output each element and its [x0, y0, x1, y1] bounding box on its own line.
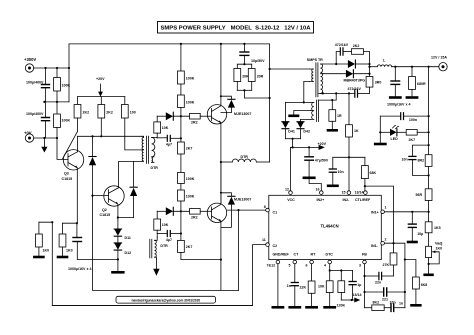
capacitor 1u dtc	[349, 271, 361, 301]
svg-text:15: 15	[342, 190, 346, 194]
wire MJE2 emitter down	[220, 222, 222, 291]
svg-text:4: 4	[324, 264, 326, 268]
svg-text:Q2: Q2	[102, 208, 107, 212]
resistor 2K2 a	[74, 97, 89, 132]
title box	[158, 22, 314, 34]
pin 4 DTC	[324, 260, 332, 267]
wire +20V rail aux	[292, 139, 294, 148]
svg-text:13/14: 13/14	[355, 190, 364, 194]
capacitor C1 100u/400V	[26, 68, 50, 102]
trimmer Vadj 1K0	[425, 242, 443, 275]
svg-text:10n: 10n	[402, 157, 408, 161]
capacitor 1n CT	[287, 264, 300, 308]
svg-text:1K0: 1K0	[66, 249, 73, 253]
capacitor 100n led blk	[380, 113, 428, 122]
svg-text:100K: 100K	[62, 119, 71, 123]
svg-text:2K7: 2K7	[186, 147, 193, 151]
svg-text:DTR: DTR	[151, 166, 159, 170]
inductor DTR horizontal	[232, 155, 269, 162]
wire C1	[228, 209, 266, 211]
resistor 10K upper	[154, 116, 169, 138]
capacitor 22n comp	[365, 272, 394, 284]
svg-text:7&12: 7&12	[267, 264, 276, 268]
wire Q2 base net down to bottom	[93, 196, 239, 291]
wire 20R return to bridge	[244, 90, 269, 98]
diode D11	[114, 229, 131, 243]
resistor 100K lower1	[178, 173, 195, 191]
svg-text:10µ/50V: 10µ/50V	[251, 59, 265, 63]
svg-text:GND/REF: GND/REF	[273, 252, 290, 256]
svg-text:DTR: DTR	[241, 155, 249, 159]
svg-text:1n: 1n	[287, 284, 291, 288]
svg-text:1n: 1n	[399, 302, 403, 306]
resistor 20R b	[248, 64, 263, 90]
wire cap bottom to D12 gnd	[77, 258, 118, 260]
wire +300V rail	[34, 67, 69, 69]
ground bar aux	[290, 115, 298, 118]
wire sec aux 1R net	[318, 93, 336, 100]
diode D41	[282, 122, 295, 139]
svg-text:1000µ/16V x 4: 1000µ/16V x 4	[387, 102, 410, 106]
pin 1 IN1+	[381, 206, 387, 214]
capacitor 221 comp	[365, 288, 405, 302]
wire +20V rail upper	[78, 96, 125, 98]
svg-text:+0V: +0V	[24, 131, 32, 136]
svg-text:IN2-: IN2-	[343, 198, 351, 202]
svg-text:13/14: 13/14	[353, 293, 362, 297]
ground bar D12	[113, 271, 124, 274]
wire IN1+ net	[385, 211, 429, 213]
wire aux top tap	[285, 102, 310, 121]
svg-text:16: 16	[316, 188, 320, 192]
pin 11 C2	[262, 238, 269, 246]
svg-text:20R: 20R	[257, 75, 264, 79]
snubber resistor 2K2	[352, 44, 370, 60]
resistor 27K comp	[383, 243, 397, 276]
diode at MJE2	[220, 192, 235, 228]
svg-text:D42: D42	[303, 129, 310, 133]
svg-text:8K2: 8K2	[373, 301, 380, 305]
node dots drive upper	[180, 43, 182, 140]
svg-text:472/1kV: 472/1kV	[335, 43, 349, 47]
svg-text:1K0: 1K0	[436, 247, 443, 251]
svg-text:2K2: 2K2	[353, 44, 360, 48]
LED	[380, 125, 406, 141]
svg-text:100: 100	[130, 111, 136, 115]
svg-text:C1815: C1815	[62, 177, 73, 181]
wire bus vertical x69	[68, 44, 70, 102]
terminal 12V/15A	[431, 56, 447, 71]
resistor 10K lower	[154, 211, 169, 237]
svg-text:RT: RT	[311, 252, 317, 256]
svg-text:100µ/400V: 100µ/400V	[26, 112, 44, 116]
wire C2 route	[253, 245, 266, 306]
snubber cap 472/1kV	[335, 43, 352, 65]
wire Q3 emitter down	[76, 168, 78, 223]
svg-text:10K: 10K	[162, 126, 169, 130]
wire top rail corner down to node A	[269, 44, 271, 162]
pin 16 IN2+	[316, 188, 324, 195]
resistor 2K2 b	[98, 97, 113, 137]
svg-text:22K: 22K	[300, 286, 307, 290]
svg-text:8R2: 8R2	[418, 159, 425, 163]
pin 7/12 GND	[267, 260, 280, 267]
svg-text:D41: D41	[288, 129, 295, 133]
pin 12 VCC	[285, 188, 292, 195]
resistor 1K sense	[346, 92, 359, 190]
wire to primary top	[270, 68, 310, 70]
diode at Q3	[89, 136, 96, 195]
svg-text:3R0: 3R0	[375, 81, 382, 85]
capacitor 10n row	[390, 301, 405, 312]
wire top rail	[69, 43, 270, 45]
svg-text:IN2+: IN2+	[317, 198, 325, 202]
svg-text:2R2: 2R2	[191, 120, 198, 124]
transistor MJE13007 upper	[207, 105, 251, 124]
svg-text:2K2: 2K2	[83, 111, 90, 115]
resistor 100K lower2	[178, 190, 195, 240]
svg-text:2K7: 2K7	[186, 245, 193, 249]
email label box	[116, 296, 216, 303]
svg-text:10µ: 10µ	[417, 232, 423, 236]
wire led blk left gnd	[375, 116, 385, 144]
chassis ground arrow	[41, 138, 47, 153]
resistor 20R a	[234, 64, 252, 90]
svg-text:VCC: VCC	[287, 198, 295, 202]
wire MJE2 collector up	[220, 162, 222, 204]
resistor 1R	[328, 99, 342, 130]
transformer DTR upper	[142, 136, 158, 170]
diode rect 2	[323, 70, 370, 83]
diode drive lower	[157, 207, 189, 215]
terminal +300V	[24, 57, 36, 72]
wire Q3 collector net	[78, 135, 142, 137]
wire C1 branch down	[238, 210, 240, 290]
capacitor 10n ref	[328, 157, 344, 186]
svg-text:C1815: C1815	[100, 213, 111, 217]
svg-text:CT: CT	[294, 252, 300, 256]
svg-text:47µ/50V: 47µ/50V	[315, 159, 329, 163]
wire Q3 collector up	[77, 136, 79, 151]
svg-text:1K0: 1K0	[43, 249, 50, 253]
wire IN2+ to gnd	[309, 179, 321, 190]
wire node A to DTR-h	[221, 161, 232, 163]
snubber2 cap 472/16V	[318, 87, 369, 97]
pin 8 C1	[264, 205, 270, 212]
resistor 680R	[407, 67, 426, 98]
inductor L	[370, 58, 439, 66]
svg-text:2K2: 2K2	[106, 111, 113, 115]
svg-text:4µ7: 4µ7	[166, 143, 172, 147]
wire long left vertical to bottom	[52, 222, 252, 305]
svg-text:10K: 10K	[162, 223, 169, 227]
wire mid bus rail	[44, 101, 69, 103]
resistor 1K5	[425, 212, 440, 247]
svg-text:1µ: 1µ	[357, 283, 361, 287]
svg-text:4µ7: 4µ7	[166, 238, 172, 242]
transformer AUX winding	[311, 100, 319, 122]
svg-text:2: 2	[385, 238, 387, 242]
pin 6 RT	[306, 260, 314, 267]
svg-text:MJE13007: MJE13007	[234, 112, 251, 116]
wire 6K8 branch	[405, 260, 416, 278]
capacitor 47u/16V	[240, 43, 265, 65]
wire dtc net arrow 13/14	[341, 293, 361, 303]
wire IN1- net	[385, 243, 405, 308]
transformer DTR lower	[150, 237, 168, 259]
wire VCC riser	[290, 147, 292, 190]
wire Q2 emitter to D11	[117, 205, 119, 230]
svg-text:6: 6	[306, 264, 308, 268]
pin 3 FB	[359, 260, 366, 267]
svg-text:10n: 10n	[338, 170, 344, 174]
svg-text:DTR: DTR	[160, 244, 168, 248]
capacitor 10n par	[402, 145, 430, 176]
transistor Q3 C1815	[62, 150, 84, 181]
resistor 8K2 row	[365, 301, 392, 311]
capacitor 1000u/16V x4	[68, 223, 91, 271]
wire MJE1 collector up	[220, 44, 222, 106]
svg-text:DTC: DTC	[326, 252, 334, 256]
svg-text:C1: C1	[273, 211, 278, 215]
wire 12V feedback drop	[428, 67, 430, 155]
svg-text:120K: 120K	[337, 303, 346, 307]
svg-text:2R2: 2R2	[191, 216, 198, 220]
resistor 68K	[362, 157, 377, 190]
svg-text:SMPS TR: SMPS TR	[307, 58, 323, 62]
svg-text:+20V: +20V	[96, 77, 105, 81]
wire ref to in1- bias	[365, 186, 394, 243]
wire ref top rail	[333, 156, 365, 158]
capacitor C2 100u/400V	[26, 102, 50, 138]
diode at Q2	[130, 161, 137, 217]
wire bottom gnd rail	[52, 305, 252, 307]
svg-text:1K5: 1K5	[434, 226, 441, 230]
resistor 2K7 led	[406, 130, 428, 143]
svg-text:FB: FB	[362, 252, 367, 256]
resistor 2R2 lower	[190, 209, 212, 220]
resistor 2K7 lower	[178, 240, 193, 259]
svg-text:100n: 100n	[409, 118, 417, 122]
wire MJE1 emitter / node A vertical	[220, 123, 222, 203]
snubber2 resistor 3R0	[366, 77, 381, 94]
svg-text:10K: 10K	[318, 285, 325, 289]
wire divider to Q3 base	[57, 128, 68, 160]
wire emitter rail lower	[181, 259, 221, 261]
resistor 10K DTC	[318, 264, 335, 308]
pin 2 IN1-	[381, 238, 387, 246]
wire Q2 collector up	[119, 161, 142, 187]
svg-text:IN1-: IN1-	[371, 244, 379, 248]
svg-text:6K8: 6K8	[421, 283, 428, 287]
diode D42	[297, 122, 310, 139]
capacitor 47u/50V	[305, 147, 329, 176]
svg-text:12: 12	[285, 188, 289, 192]
svg-text:D12: D12	[125, 251, 132, 255]
node dots drive lower	[180, 210, 182, 234]
diode rect 1	[323, 60, 370, 68]
wire 1K0 pair	[39, 222, 77, 223]
svg-text:C2: C2	[273, 244, 278, 248]
resistor 120K	[337, 271, 346, 308]
svg-text:IN1+: IN1+	[371, 211, 379, 215]
resistor 2K7 upper	[178, 142, 193, 173]
capacitor 4u7 lower	[157, 231, 181, 243]
resistor R 100K upper	[54, 68, 71, 102]
wire D4x cathodes join	[285, 138, 300, 140]
pin 15 IN2-	[342, 190, 351, 194]
svg-text:2K7: 2K7	[409, 138, 416, 142]
pin GND stub	[273, 264, 283, 308]
wire 2K2a to Q3 base (diagonal)	[63, 131, 78, 159]
transistor MJE13007 lower	[207, 197, 251, 222]
resistor 1K0 a	[34, 222, 49, 257]
svg-text:680R: 680R	[417, 82, 426, 86]
resistor 100 c	[121, 97, 141, 150]
svg-text:22n: 22n	[375, 281, 381, 285]
svg-text:TL494CN: TL494CN	[321, 224, 339, 229]
svg-text:100K: 100K	[186, 77, 195, 81]
resistor R 100K lower	[54, 102, 71, 128]
svg-text:1000µ/16V x 4: 1000µ/16V x 4	[68, 267, 91, 271]
svg-text:12V / 15A: 12V / 15A	[431, 56, 447, 60]
diode D12	[114, 243, 131, 271]
node dots 300V rail	[44, 67, 70, 69]
svg-text:5: 5	[289, 264, 291, 268]
transformer SMPS TR	[307, 58, 323, 97]
pin 5 CT	[289, 260, 297, 267]
resistor 6K8	[412, 277, 428, 305]
label +20V upper	[96, 77, 105, 97]
pin 13/14	[355, 190, 368, 194]
svg-text:CTL/REF: CTL/REF	[355, 198, 371, 202]
label +20V arrow	[318, 142, 327, 150]
svg-text:100K: 100K	[62, 84, 71, 88]
svg-text:Q3: Q3	[64, 172, 69, 176]
svg-text:1K: 1K	[354, 129, 359, 133]
wire 20R bottoms	[237, 89, 251, 91]
svg-text:3: 3	[359, 264, 361, 268]
diode at MJE1	[220, 95, 235, 112]
svg-text:SMPS POWER SUPPLY MODEL S-1: SMPS POWER SUPPLY MODEL S-120-12 12V / 1…	[160, 26, 311, 32]
wire aux mid tap to gnd	[294, 111, 311, 115]
capacitor 10u in1	[408, 212, 423, 242]
wire 0V	[34, 137, 57, 139]
ground bar 47u	[304, 177, 314, 180]
svg-text:8: 8	[264, 205, 266, 209]
svg-text:100K: 100K	[186, 195, 195, 199]
svg-text:56R: 56R	[416, 193, 423, 197]
svg-text:MJE13007: MJE13007	[234, 197, 251, 201]
resistor 100K upper2	[178, 84, 195, 142]
svg-text:68K: 68K	[370, 171, 377, 175]
resistor chain 100K upper1	[178, 44, 195, 84]
svg-text:nandasirigunasekara@yahoo.com: nandasirigunasekara@yahoo.com 30/01/2020	[131, 299, 200, 303]
svg-text:+300V: +300V	[24, 57, 36, 62]
svg-text:100K: 100K	[186, 177, 195, 181]
ground arrow DTR lower	[153, 259, 159, 276]
svg-text:LED: LED	[391, 137, 399, 141]
wire aux bottom tap	[301, 119, 311, 121]
diode drive upper	[157, 112, 189, 120]
capacitor out 1000u/16V	[387, 67, 410, 107]
svg-text:MBR40T3PG: MBR40T3PG	[344, 79, 366, 83]
svg-text:27K: 27K	[383, 263, 390, 267]
resistor 8R2	[418, 155, 433, 189]
resistor 1K0 b	[58, 223, 73, 257]
wire diode output vertical	[369, 60, 371, 77]
svg-text:221: 221	[382, 298, 388, 302]
wire FB vertical	[364, 264, 366, 308]
wire primary bottom	[304, 81, 310, 102]
wire DTC branch	[330, 270, 353, 272]
capacitor 4u7 upper	[157, 135, 181, 146]
svg-text:11: 11	[262, 238, 266, 242]
svg-text:Vadj: Vadj	[435, 242, 442, 246]
resistor 22K RT	[300, 264, 317, 308]
IC TL494CN body	[269, 195, 382, 259]
svg-text:1R: 1R	[337, 114, 342, 118]
svg-text:100K: 100K	[186, 101, 195, 105]
svg-text:1: 1	[385, 206, 387, 210]
wire Q2 base	[93, 195, 109, 197]
svg-text:D11: D11	[125, 236, 131, 240]
transistor Q2 C1815	[100, 186, 125, 217]
resistor 56R	[416, 189, 433, 212]
terminal +0V	[24, 131, 34, 143]
resistor 2R2 upper	[190, 113, 212, 124]
